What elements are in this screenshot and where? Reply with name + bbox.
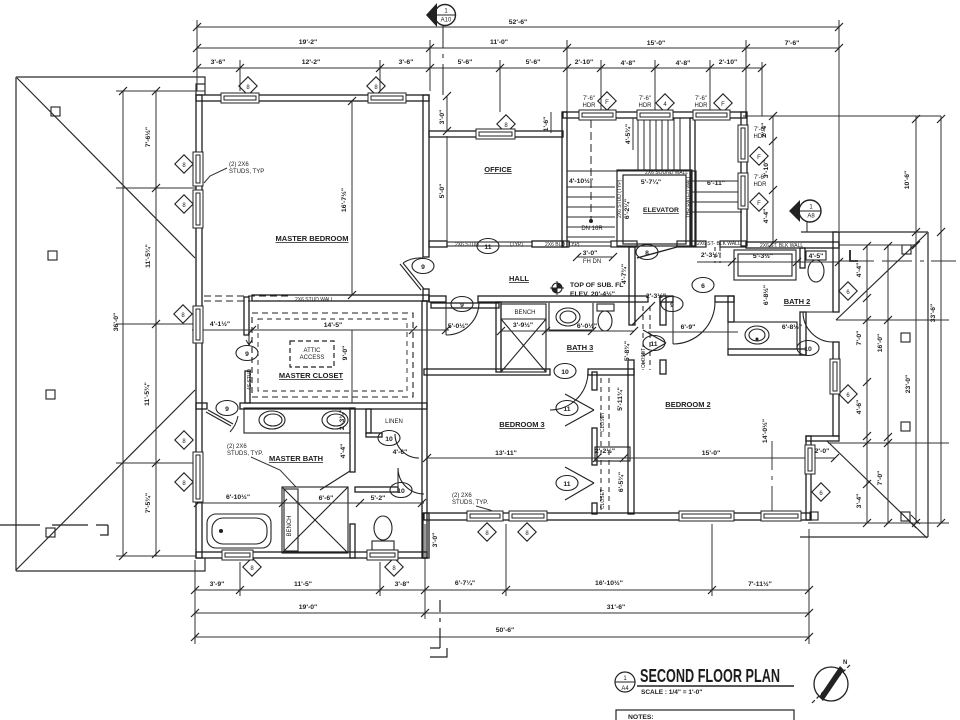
svg-text:BATH 3: BATH 3: [567, 343, 594, 352]
svg-text:ELEVATOR: ELEVATOR: [643, 207, 679, 214]
svg-text:9: 9: [245, 351, 249, 358]
svg-text:19'-0": 19'-0": [299, 604, 317, 611]
svg-text:CLOSET: CLOSET: [600, 489, 606, 509]
svg-text:9: 9: [225, 406, 229, 413]
svg-text:9: 9: [421, 264, 425, 271]
svg-text:STUDS, TYP: STUDS, TYP: [229, 169, 264, 175]
svg-text:36'-0": 36'-0": [113, 313, 120, 331]
svg-text:6: 6: [846, 290, 850, 296]
svg-text:4'-4": 4'-4": [340, 444, 347, 459]
svg-text:A4: A4: [621, 686, 629, 692]
svg-text:2'-3¾": 2'-3¾": [338, 410, 346, 430]
svg-text:HDR: HDR: [695, 103, 709, 109]
svg-text:BATH 2: BATH 2: [784, 297, 811, 306]
svg-text:10: 10: [561, 369, 569, 376]
svg-text:5'-8¾": 5'-8¾": [623, 341, 631, 361]
svg-text:6: 6: [819, 491, 823, 497]
svg-text:6: 6: [701, 283, 705, 290]
svg-text:MASTER BEDROOM: MASTER BEDROOM: [276, 234, 349, 243]
svg-text:A8: A8: [807, 214, 815, 220]
svg-text:MASTER CLOSET: MASTER CLOSET: [279, 371, 344, 380]
svg-text:HDR: HDR: [754, 182, 768, 188]
svg-text:6'-6": 6'-6": [319, 495, 334, 502]
svg-text:NOTES:: NOTES:: [628, 714, 654, 720]
svg-text:23'-0": 23'-0": [905, 375, 912, 393]
svg-text:8: 8: [182, 163, 186, 169]
svg-text:13'-11": 13'-11": [495, 450, 517, 457]
svg-text:8: 8: [485, 531, 489, 537]
svg-text:TOP OF SUB. FL: TOP OF SUB. FL: [570, 282, 623, 289]
svg-text:15'-0": 15'-0": [702, 450, 720, 457]
svg-text:8: 8: [181, 313, 185, 319]
svg-text:3'-6": 3'-6": [399, 59, 414, 66]
svg-text:5'-0½": 5'-0½": [448, 322, 468, 330]
svg-text:5'-6": 5'-6": [526, 59, 541, 66]
svg-text:7'-6": 7'-6": [639, 96, 651, 102]
svg-text:4'-5¾": 4'-5¾": [624, 124, 632, 144]
svg-text:6'-10½": 6'-10½": [226, 493, 250, 501]
svg-text:5'-6": 5'-6": [458, 59, 473, 66]
svg-text:14'-5": 14'-5": [324, 322, 342, 329]
svg-text:16'-7½": 16'-7½": [340, 188, 348, 212]
svg-text:10'-6": 10'-6": [904, 171, 911, 189]
svg-text:FH DN: FH DN: [583, 259, 601, 265]
svg-text:52'-6": 52'-6": [509, 19, 527, 26]
svg-text:2X6 STUD (TYP): 2X6 STUD (TYP): [617, 179, 623, 218]
svg-text:7'-6": 7'-6": [785, 40, 800, 47]
svg-text:BEDROOM 2: BEDROOM 2: [665, 400, 710, 409]
svg-text:5'-2": 5'-2": [371, 495, 386, 502]
svg-text:2X6 ST. BLK WALL: 2X6 ST. BLK WALL: [760, 243, 803, 249]
svg-text:2X6 BLD (TYP): 2X6 BLD (TYP): [545, 242, 580, 248]
svg-text:8: 8: [374, 85, 378, 91]
svg-text:8: 8: [182, 203, 186, 209]
svg-text:4'-10½": 4'-10½": [569, 177, 593, 185]
svg-text:2'-4": 2'-4": [761, 123, 768, 138]
svg-text:F: F: [757, 201, 761, 207]
svg-text:7'-6": 7'-6": [695, 96, 707, 102]
svg-text:2X6 ST- BLK WALL: 2X6 ST- BLK WALL: [697, 241, 741, 247]
svg-text:8: 8: [182, 439, 186, 445]
svg-text:(2) 2X6: (2) 2X6: [227, 444, 247, 450]
svg-text:2'-10": 2'-10": [719, 59, 737, 66]
svg-text:7'-0": 7'-0": [877, 471, 884, 486]
svg-text:A10: A10: [441, 18, 452, 24]
svg-text:2'-3½": 2'-3½": [646, 292, 666, 300]
svg-text:4'-8": 4'-8": [676, 60, 691, 67]
svg-text:4S STUD: 4S STUD: [247, 368, 253, 390]
svg-text:8: 8: [246, 85, 250, 91]
svg-text:2'-3½": 2'-3½": [701, 251, 721, 259]
svg-text:11'-5": 11'-5": [294, 581, 312, 588]
svg-text:6'-9": 6'-9": [681, 324, 696, 331]
svg-text:8: 8: [525, 531, 529, 537]
svg-text:7'-5¾": 7'-5¾": [144, 493, 152, 513]
svg-text:4'-1½": 4'-1½": [210, 320, 230, 328]
svg-text:3'-0": 3'-0": [439, 110, 446, 125]
svg-text:(TYP): (TYP): [510, 242, 523, 248]
svg-text:SECOND FLOOR PLAN: SECOND FLOOR PLAN: [640, 666, 780, 686]
svg-text:4'-8": 4'-8": [621, 60, 636, 67]
svg-text:8: 8: [250, 566, 254, 572]
svg-text:6'-0½": 6'-0½": [577, 322, 597, 330]
svg-text:4'-6": 4'-6": [856, 400, 863, 415]
svg-text:1: 1: [444, 9, 448, 15]
svg-text:4'-4": 4'-4": [856, 263, 863, 278]
svg-text:F: F: [721, 102, 725, 108]
svg-text:BENCH: BENCH: [514, 310, 535, 316]
svg-text:16'-10½": 16'-10½": [595, 579, 623, 587]
svg-text:7'-11½": 7'-11½": [748, 580, 772, 588]
svg-text:9: 9: [460, 302, 464, 309]
svg-text:12'-2": 12'-2": [302, 59, 320, 66]
svg-text:1'-6": 1'-6": [543, 117, 550, 132]
svg-text:STUDS, TYP.: STUDS, TYP.: [452, 500, 488, 506]
svg-text:11: 11: [563, 481, 570, 488]
svg-text:3'-9½": 3'-9½": [513, 321, 533, 329]
svg-text:CLOSET: CLOSET: [641, 348, 647, 368]
svg-text:1HR RATED WALL: 1HR RATED WALL: [686, 175, 692, 218]
svg-text:ATTIC: ATTIC: [304, 348, 322, 354]
svg-text:11'-0": 11'-0": [490, 39, 508, 46]
svg-text:(2) 2X6: (2) 2X6: [229, 162, 249, 168]
svg-text:8: 8: [504, 123, 508, 129]
svg-text:11: 11: [484, 244, 491, 251]
svg-text:2'-10": 2'-10": [575, 59, 593, 66]
svg-text:4'-4": 4'-4": [763, 209, 770, 224]
svg-text:6'-8½": 6'-8½": [782, 323, 802, 331]
svg-text:MASTER BATH: MASTER BATH: [269, 454, 323, 463]
svg-text:2X6 STUD: 2X6 STUD: [455, 242, 479, 248]
svg-text:BENCH: BENCH: [287, 515, 293, 536]
svg-text:3'-4": 3'-4": [856, 494, 863, 509]
svg-text:2X6 SOUND WALL: 2X6 SOUND WALL: [645, 170, 688, 176]
svg-text:11'-5¾": 11'-5¾": [143, 382, 151, 406]
svg-text:6'-2¼": 6'-2¼": [623, 199, 631, 219]
svg-text:6'-7¼": 6'-7¼": [455, 579, 475, 587]
svg-text:9: 9: [670, 302, 674, 309]
svg-text:11'-5¾": 11'-5¾": [144, 244, 152, 268]
svg-text:STUDS, TYP.: STUDS, TYP.: [227, 451, 263, 457]
svg-text:3'-0": 3'-0": [583, 250, 598, 257]
svg-text:5'-3½": 5'-3½": [753, 252, 773, 260]
svg-text:HDR: HDR: [639, 103, 653, 109]
svg-text:5'-11¾": 5'-11¾": [616, 387, 624, 411]
svg-text:6'-5¾": 6'-5¾": [617, 472, 625, 492]
svg-text:N: N: [843, 660, 847, 666]
svg-text:16'-0": 16'-0": [877, 334, 884, 352]
svg-text:HALL: HALL: [509, 274, 529, 283]
svg-text:3'-9": 3'-9": [210, 581, 225, 588]
svg-text:LINEN: LINEN: [385, 419, 403, 425]
svg-text:ACCESS: ACCESS: [300, 355, 325, 361]
svg-text:OFFICE: OFFICE: [484, 165, 512, 174]
svg-text:5'-7¼": 5'-7¼": [641, 178, 661, 186]
svg-text:31'-6": 31'-6": [607, 604, 625, 611]
svg-text:3'-8": 3'-8": [395, 581, 410, 588]
svg-text:11: 11: [650, 341, 657, 348]
svg-text:4'-5": 4'-5": [809, 253, 824, 260]
svg-text:1: 1: [809, 205, 813, 211]
svg-text:8: 8: [182, 481, 186, 487]
svg-text:3'-10": 3'-10": [763, 160, 770, 178]
svg-text:F: F: [757, 155, 761, 161]
svg-text:10: 10: [385, 436, 393, 443]
svg-text:SCALE : 1/4" = 1'-0": SCALE : 1/4" = 1'-0": [641, 689, 702, 696]
svg-text:10: 10: [804, 346, 812, 353]
svg-text:7'-0": 7'-0": [856, 331, 863, 346]
svg-text:CLOSET: CLOSET: [600, 412, 606, 432]
svg-text:15'-0": 15'-0": [647, 40, 665, 47]
svg-text:(2) 2X6: (2) 2X6: [452, 493, 472, 499]
svg-text:2'-2½": 2'-2½": [595, 447, 615, 455]
svg-text:6'-8½": 6'-8½": [762, 285, 770, 305]
svg-text:4'-6": 4'-6": [393, 449, 408, 456]
svg-text:3'-6": 3'-6": [211, 59, 226, 66]
svg-text:1: 1: [623, 676, 627, 682]
svg-text:9'-0": 9'-0": [342, 346, 349, 361]
svg-text:7'-6½": 7'-6½": [144, 127, 152, 147]
svg-text:3'-0": 3'-0": [432, 533, 439, 548]
svg-text:HDR: HDR: [583, 103, 597, 109]
svg-text:6: 6: [846, 393, 850, 399]
svg-text:5'-0": 5'-0": [439, 184, 446, 199]
svg-text:8: 8: [392, 566, 396, 572]
svg-text:7'-6": 7'-6": [583, 96, 595, 102]
svg-text:BEDROOM 3: BEDROOM 3: [499, 420, 544, 429]
svg-text:2X6 STUD WALL: 2X6 STUD WALL: [295, 297, 334, 303]
svg-text:4: 4: [663, 102, 667, 108]
svg-text:DN 16R: DN 16R: [581, 226, 603, 232]
svg-text:2'-0": 2'-0": [815, 448, 830, 455]
svg-text:19'-2": 19'-2": [299, 39, 317, 46]
svg-text:33'-6": 33'-6": [930, 304, 937, 322]
svg-text:6'-11": 6'-11": [707, 180, 725, 187]
svg-text:F: F: [605, 100, 609, 106]
svg-text:14'-0½": 14'-0½": [761, 419, 769, 443]
svg-text:50'-6": 50'-6": [496, 627, 514, 634]
svg-text:ELEV. 20'-4½": ELEV. 20'-4½": [570, 290, 615, 298]
